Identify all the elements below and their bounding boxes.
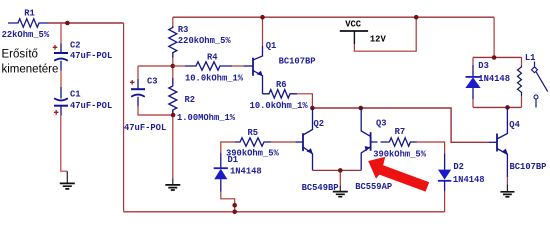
node junction D1 bottom rail (232, 210, 237, 215)
resistor R7 (373, 127, 427, 159)
svg-text:Q4: Q4 (509, 120, 520, 130)
diode D1 (214, 153, 262, 192)
svg-text:1N4148: 1N4148 (230, 166, 262, 176)
svg-text:C3: C3 (147, 77, 158, 87)
wire Q1 collector to top rail (262, 17, 264, 46)
svg-text:10.0kOhm_1%: 10.0kOhm_1% (185, 73, 244, 83)
wire D1 bottom to rail (221, 192, 235, 212)
inductor L1 (relay coil) (518, 53, 536, 96)
svg-text:Q2: Q2 (314, 119, 325, 129)
wire junction to C2 top (60, 23, 62, 44)
svg-text:VCC: VCC (345, 20, 362, 30)
svg-text:D1: D1 (228, 155, 239, 165)
wire R5 left / D1 top (221, 142, 235, 153)
svg-text:1N4148: 1N4148 (453, 175, 485, 185)
wire C2 bottom to C1 top (60, 71, 62, 88)
wire relay box top (473, 56, 522, 58)
node junction VCC rail (414, 15, 419, 20)
wire R6 to collector rail (297, 94, 312, 108)
ground under Q2/Q3 (333, 185, 348, 196)
svg-text:R6: R6 (276, 80, 287, 90)
wire L1 leads (521, 57, 523, 107)
capacitor C2 (53, 41, 113, 71)
annotation text Erősítő kimenetére (2, 48, 59, 75)
wire C3 bottom / R2 bottom to ground (138, 106, 173, 179)
node junction Q4 collector / box bottom (505, 105, 510, 110)
wire D2 bottom to rail (444, 191, 446, 212)
resistor R5 (226, 128, 280, 158)
wire common emitter rail (313, 169, 362, 171)
node junction R1/C2 (65, 21, 70, 26)
svg-text:220kOhm_5%: 220kOhm_5% (178, 36, 232, 46)
node junction D1 wire (232, 203, 237, 208)
wire R5 to Q2 base (271, 141, 295, 143)
svg-text:L1: L1 (525, 53, 536, 63)
svg-text:BC107BP: BC107BP (279, 56, 316, 66)
transistor Q3 (355, 108, 392, 192)
wire relay box bottom (473, 106, 522, 108)
node junction emitter rail (338, 168, 343, 173)
capacitor C1 (54, 87, 112, 116)
wire D3 leads (472, 57, 474, 107)
node junction Q3 collector (359, 106, 364, 111)
svg-text:BC107BP: BC107BP (510, 162, 547, 172)
node junction R3/R4/R2/C3 (171, 64, 176, 69)
wire Q4 emitter to ground (506, 177, 508, 184)
transistor Q1 (244, 41, 316, 94)
ground under C1 (60, 171, 75, 189)
node junction R2/C3 bottom (171, 113, 176, 118)
svg-text:R2: R2 (185, 95, 196, 105)
svg-text:1.00MOhm_1%: 1.00MOhm_1% (177, 113, 236, 123)
resistor R4 (173, 53, 244, 84)
svg-text:BC559AP: BC559AP (355, 182, 392, 192)
diode D3 (465, 61, 510, 99)
power symbol VCC 12V (340, 20, 387, 45)
wire R4 to Q1 base (232, 65, 244, 67)
svg-text:R7: R7 (395, 127, 406, 137)
svg-text:47uF-POL: 47uF-POL (70, 101, 112, 111)
resistor R2 (169, 78, 236, 123)
node junction Q2 collector (310, 106, 315, 111)
wire VCC stem (354, 17, 416, 51)
svg-text:R1: R1 (24, 9, 35, 19)
resistor R3 (169, 25, 232, 58)
wire R1 output to left loop top (48, 22, 124, 24)
wire emitter ground stem (339, 170, 341, 185)
transistor Q4 (489, 107, 547, 177)
svg-text:Erősítő: Erősítő (2, 48, 38, 60)
svg-text:C1: C1 (70, 89, 81, 99)
transistor Q2 (295, 108, 338, 193)
wire R2 top (172, 66, 174, 78)
svg-text:10.0kOhm_1%: 10.0kOhm_1% (250, 101, 309, 111)
svg-text:R5: R5 (248, 128, 259, 138)
capacitor C3 (124, 77, 166, 133)
svg-text:47uF-POL: 47uF-POL (70, 51, 112, 61)
ground under Q4 (500, 184, 514, 196)
svg-text:1N4148: 1N4148 (478, 74, 510, 84)
wire rail drop to relay box (493, 17, 495, 57)
wire left loop vertical (123, 23, 125, 212)
wire top rail VCC (173, 16, 494, 18)
svg-text:D3: D3 (478, 61, 489, 71)
wire C3 top to junction (138, 66, 173, 79)
resistor R1 (2, 9, 50, 40)
svg-text:Q3: Q3 (376, 119, 387, 129)
wire collector rail (312, 108, 488, 142)
svg-text:12V: 12V (370, 34, 387, 44)
annotation red arrow (368, 157, 429, 192)
svg-text:47uF-POL: 47uF-POL (124, 123, 166, 133)
svg-text:C2: C2 (70, 41, 81, 51)
node junction rail drop / box top (492, 55, 497, 60)
wire C1 bottom to ground jog (61, 116, 68, 172)
svg-text:Q1: Q1 (266, 41, 277, 51)
svg-text:22kOhm_5%: 22kOhm_5% (2, 30, 50, 40)
resistor R6 (250, 80, 309, 111)
wire bottom rail (124, 211, 445, 213)
svg-text:D2: D2 (453, 162, 464, 172)
svg-text:kimenetére: kimenetére (2, 63, 59, 75)
relay contact lever and terminals (532, 62, 548, 108)
svg-text:R4: R4 (207, 53, 218, 63)
wire R3 bottom to junction (172, 56, 174, 66)
ground under R2 (165, 179, 180, 191)
wire R7 to D2 (417, 142, 445, 153)
svg-text:R3: R3 (178, 25, 189, 35)
node junction Q1 collector rail (260, 15, 265, 20)
wire R3 top (172, 17, 174, 26)
diode D2 (438, 153, 485, 191)
